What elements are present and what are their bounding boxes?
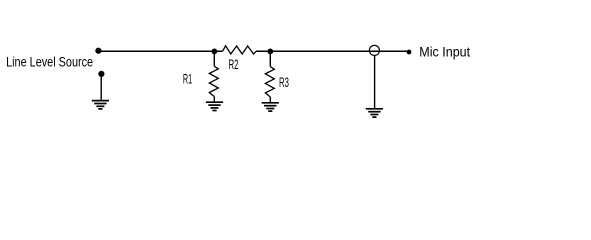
wire: stub from junction down to R3	[269, 51, 271, 66]
ground: below source	[92, 101, 109, 109]
resistor R1 (vertical zigzag)	[209, 66, 218, 96]
wire: stub from junction down to R1	[213, 51, 215, 66]
ground: below connector	[366, 109, 383, 117]
wire: stub from R1 to ground	[213, 96, 215, 102]
wire: stub from source ground terminal down to ground	[100, 74, 102, 100]
wire: main horizontal run from source node to R2	[98, 50, 222, 52]
svg-text:Mic Input: Mic Input	[419, 44, 470, 59]
node: source hot terminal	[95, 48, 101, 54]
node: junction of R3 with main wire	[267, 49, 273, 55]
node: junction of R1 with main wire	[212, 49, 218, 55]
ground: below R1	[206, 102, 223, 110]
wire: stub from R3 to ground	[269, 97, 271, 103]
wire: from R2 to mic input terminal dot	[256, 50, 409, 52]
ground: below R3	[262, 103, 279, 111]
resistor R2 (horizontal zigzag)	[223, 46, 257, 54]
connector: open-circle terminal on main wire	[369, 45, 379, 55]
svg-text:R2: R2	[229, 57, 239, 72]
wire: stub from connector down to ground	[374, 55, 376, 108]
svg-text:Line Level Source: Line Level Source	[6, 54, 93, 69]
node: source ground terminal	[98, 71, 104, 77]
svg-text:R3: R3	[279, 75, 289, 90]
node: mic input terminal dot	[407, 50, 412, 55]
svg-text:R1: R1	[183, 71, 192, 86]
resistor R3 (vertical zigzag)	[265, 67, 274, 97]
